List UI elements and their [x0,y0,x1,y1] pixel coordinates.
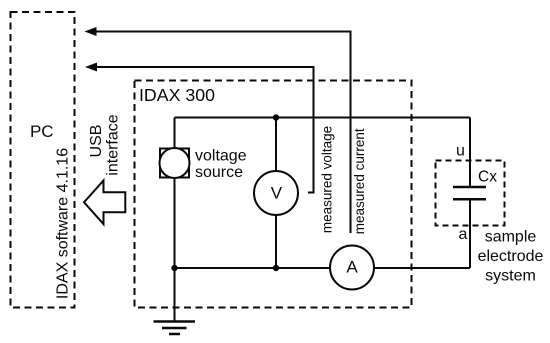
svg-text:V: V [271,184,283,203]
svg-text:u: u [456,143,465,160]
wire: bottom rail right [374,267,471,269]
arrowhead: measured voltage to PC [85,63,97,72]
wire: measured current tap [96,32,351,234]
node: bottom rail / ground junction [171,265,177,271]
sample electrode system enclosure box [436,161,505,226]
wire: capacitor lower lead [469,201,471,269]
PC enclosure box [11,12,75,308]
wire: top rail [175,117,471,119]
svg-text:source: source [195,164,243,181]
voltmeter V [254,171,298,215]
svg-text:IDAX software 4.1.16: IDAX software 4.1.16 [55,148,72,299]
voltage source U1 (square) [160,149,189,178]
IDAX 300 enclosure box [135,81,412,308]
ammeter A [330,246,374,290]
wire: voltmeter top lead [275,118,277,172]
svg-text:measured current: measured current [352,128,367,234]
svg-text:IDAX 300: IDAX 300 [139,85,215,105]
wire: voltage source bottom lead to ground [174,178,176,322]
wire: bottom rail left [175,267,333,269]
svg-text:Cx: Cx [478,169,497,186]
svg-text:measured voltage: measured voltage [320,126,335,233]
wire: voltage source top lead [174,118,176,149]
node: bottom rail / voltmeter junction [273,265,279,271]
svg-text:electrode: electrode [478,248,544,265]
voltage source U1 (circle) [160,148,190,178]
ground symbol [154,322,196,335]
svg-text:A: A [346,258,358,277]
wire: voltmeter bottom lead [275,215,277,269]
wire: capacitor upper lead [469,118,471,188]
svg-text:system: system [485,268,536,285]
node: top rail / voltmeter junction [273,114,279,120]
svg-text:PC: PC [30,122,54,141]
svg-text:interface: interface [105,114,122,175]
svg-text:a: a [459,226,468,243]
svg-text:sample: sample [485,229,537,246]
USB interface block arrow [84,181,125,225]
svg-text:voltage: voltage [195,148,247,165]
capacitor Cx plates [453,186,486,189]
svg-text:USB: USB [88,125,105,158]
wire: measured voltage tap (hook from voltmeter) [96,67,314,193]
arrowhead: measured current to PC [85,27,97,36]
